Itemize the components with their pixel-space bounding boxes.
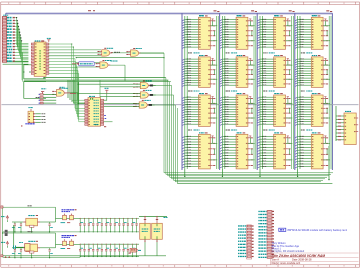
svg-text:(c) lights, RF shield included: (c) lights, RF shield included bbox=[272, 249, 305, 253]
svg-text:Date 2008-08-28: Date 2008-08-28 bbox=[292, 257, 312, 261]
svg-text:File(s): sram-module.sch: File(s): sram-module.sch bbox=[272, 261, 301, 265]
svg-text:Size A: Size A bbox=[272, 257, 280, 261]
svg-text:8M*8/16-bit SRAM module with b: 8M*8/16-bit SRAM module with battery bac… bbox=[288, 228, 348, 232]
svg-text:Title Zif-the AS6C4008 VC/9K R: Title Zif-the AS6C4008 VC/9K RAM bbox=[271, 254, 325, 258]
